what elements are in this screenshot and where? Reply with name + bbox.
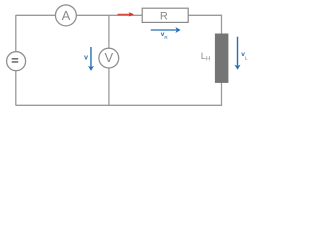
resistor R <box>142 8 188 22</box>
svg-text:vL: vL <box>241 51 248 60</box>
svg-text:LH: LH <box>201 51 211 62</box>
DC source V1 <box>7 52 26 71</box>
voltmeter V <box>99 48 119 68</box>
svg-text:vR: vR <box>161 31 169 40</box>
voltage arrow vL (blue) <box>235 37 241 70</box>
wire bottom <box>16 104 222 106</box>
wire top <box>16 14 222 16</box>
voltage arrow v (blue, at voltmeter) <box>88 47 94 71</box>
svg-text:v: v <box>84 54 88 61</box>
wire voltmeter branch <box>108 15 110 106</box>
svg-text:V: V <box>104 50 113 65</box>
voltage arrow vR (blue) <box>151 27 181 33</box>
svg-text:R: R <box>160 10 168 22</box>
wire right <box>221 15 223 106</box>
wire left <box>15 15 17 106</box>
ammeter A1 <box>55 5 76 26</box>
inductor LH <box>215 34 229 83</box>
current arrow i (red) <box>118 12 134 17</box>
svg-text:A: A <box>62 8 71 23</box>
